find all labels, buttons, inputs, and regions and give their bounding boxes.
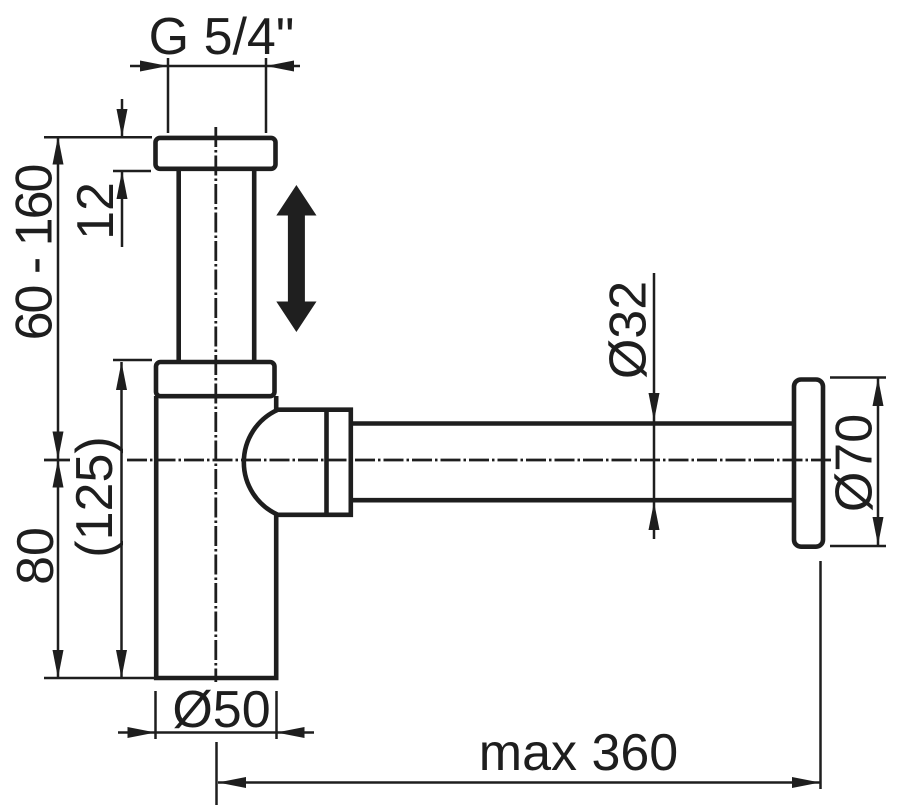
dimension O50: left extension xyxy=(154,691,157,739)
outlet pipe bottom wall xyxy=(351,498,794,503)
trap body xyxy=(156,396,276,678)
dimension 60-160: line xyxy=(57,137,60,460)
dimension G 5/4: right extension line xyxy=(265,58,268,133)
trap nut (lower flange) xyxy=(156,362,275,396)
dimension O70: line xyxy=(877,378,880,545)
svg-text:(125): (125) xyxy=(66,436,124,557)
dimension max 360: left arrow xyxy=(218,777,246,788)
dimension G 5/4: line xyxy=(130,65,300,68)
svg-text:Ø70: Ø70 xyxy=(826,414,884,512)
motion double arrow xyxy=(276,185,316,332)
dimension O70: top extension xyxy=(830,376,886,379)
vertical centerline xyxy=(214,127,217,682)
dimension 80: bottom arrow xyxy=(53,650,64,678)
svg-text:60 - 160: 60 - 160 xyxy=(6,166,64,341)
dimension O70: top arrow xyxy=(873,378,884,406)
dimension (125): line xyxy=(120,362,123,678)
extension line at body bottom (for 80 and 125) xyxy=(44,677,154,680)
top flange xyxy=(156,138,276,169)
dimension (125): bottom arrow xyxy=(116,650,127,678)
dimension O32: upper arrow xyxy=(649,393,660,421)
inlet pipe left wall xyxy=(176,170,181,361)
dimension 12: top arrow xyxy=(117,109,128,137)
dimension O32: line xyxy=(653,273,656,539)
dimension G 5/4: left arrow xyxy=(140,61,168,72)
dimension O50: left arrow xyxy=(128,727,156,738)
horizontal centerline xyxy=(127,459,831,462)
dimension max 360: right arrow xyxy=(792,777,820,788)
outlet nut ring line xyxy=(324,408,329,518)
dimension O50: right arrow xyxy=(277,727,305,738)
extension line at flange bottom (for 12) xyxy=(113,170,151,173)
dimension max 360: left extension xyxy=(215,742,218,805)
svg-text:G 5/4": G 5/4" xyxy=(149,8,295,66)
wall rosette flange xyxy=(794,380,823,547)
dimension max 360: line xyxy=(218,781,820,784)
outlet pipe top wall xyxy=(351,421,794,426)
dimension O70: bottom extension xyxy=(830,545,886,548)
dimension O50: line xyxy=(118,731,314,734)
dimension max 360: right extension xyxy=(819,561,822,789)
dimension 80: line xyxy=(57,460,60,679)
dimension O32: lower arrow xyxy=(649,502,660,530)
dimension 12: bottom arrow xyxy=(117,171,128,199)
svg-text:12: 12 xyxy=(67,182,125,240)
dimension 60-160: bottom arrow xyxy=(53,432,64,460)
dimension 60-160: top arrow xyxy=(53,137,64,165)
svg-text:80: 80 xyxy=(7,527,65,585)
dimension G 5/4: left extension line xyxy=(167,58,170,133)
dimension O70: bottom arrow xyxy=(873,517,884,545)
dimension O50: right extension xyxy=(275,691,278,739)
svg-text:Ø32: Ø32 xyxy=(600,281,658,379)
horizontal centerline tick at dimension junction xyxy=(44,459,70,462)
svg-text:Ø50: Ø50 xyxy=(172,681,270,739)
extension line at nut top (for 125) xyxy=(113,359,152,362)
dimension (125): top arrow xyxy=(116,362,127,390)
dimension 80: top arrow xyxy=(53,460,64,488)
inlet pipe right wall xyxy=(252,170,257,361)
svg-text:max 360: max 360 xyxy=(479,724,678,782)
dimension 12: line xyxy=(121,99,124,137)
extension line at flange top (for 60-160 and 12) xyxy=(44,136,152,139)
dimension G 5/4: right arrow xyxy=(266,61,294,72)
outlet elbow ball and cone xyxy=(244,410,351,515)
